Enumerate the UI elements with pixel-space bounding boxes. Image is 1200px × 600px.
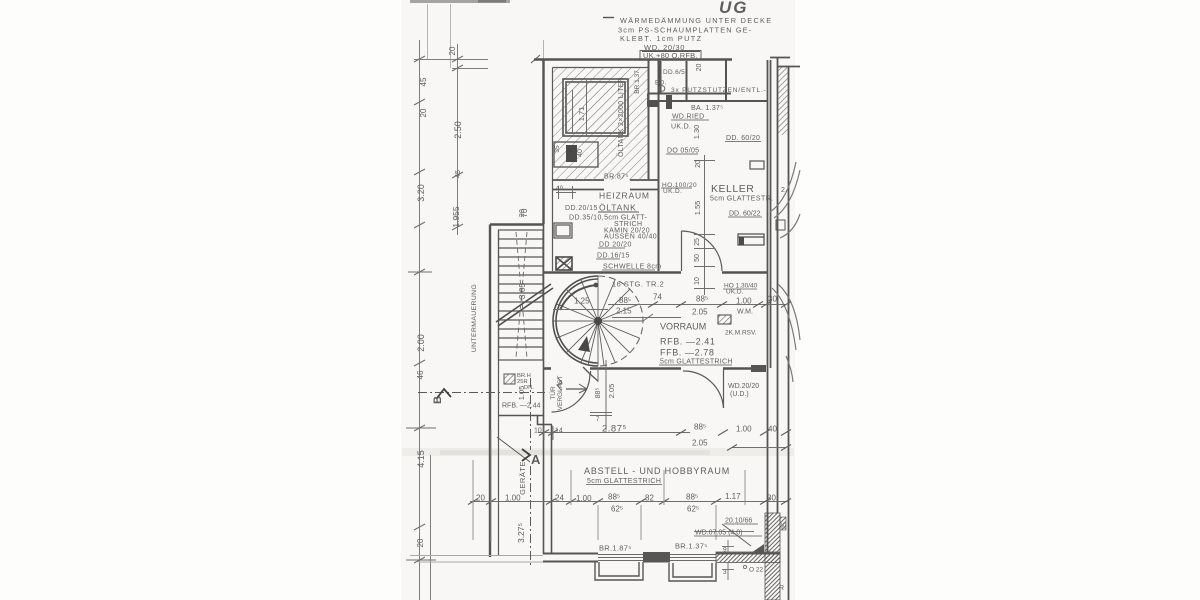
- svg-text:UK.+80 O.RFB.: UK.+80 O.RFB.: [643, 51, 698, 60]
- svg-text:A: A: [531, 452, 541, 467]
- svg-text:30: 30: [767, 494, 776, 503]
- svg-text:20: 20: [448, 46, 457, 55]
- bottom outer wall double with window openings: [543, 554, 780, 562]
- svg-text:40: 40: [556, 186, 564, 192]
- svg-text:WD.RIED: WD.RIED: [672, 114, 704, 121]
- svg-text:50: 50: [694, 254, 701, 262]
- oeltank room right wall double: [649, 60, 659, 272]
- spiral stair outer circle: [553, 276, 598, 366]
- keller shelf dark: [738, 234, 764, 245]
- svg-text:1.00: 1.00: [736, 297, 752, 306]
- small vertical dim marks right bottom: [722, 540, 747, 580]
- svg-text:HEIZRAUM: HEIZRAUM: [599, 191, 650, 201]
- svg-text:2K.M.RSV.: 2K.M.RSV.: [725, 330, 757, 337]
- svg-text:2.: 2.: [781, 187, 787, 194]
- small zigzag mark left of spiral room: [557, 378, 562, 390]
- right outer wall double: [768, 57, 801, 600]
- bottom dim labels: [476, 492, 776, 514]
- svg-text:30: 30: [768, 295, 777, 304]
- ticks on 2.87 dim line: [539, 430, 791, 451]
- svg-text:88⁵: 88⁵: [696, 295, 708, 304]
- svg-text:20: 20: [416, 538, 425, 547]
- svg-text:88⁵: 88⁵: [608, 493, 620, 502]
- svg-text:5cm GLATTESTR.: 5cm GLATTESTR.: [710, 196, 773, 203]
- section A diagonal jog: [497, 437, 530, 462]
- svg-text:45: 45: [419, 77, 428, 86]
- svg-text:UNTERMAUERUNG: UNTERMAUERUNG: [471, 284, 478, 352]
- faint bottom-left extension lines: [410, 556, 543, 563]
- svg-text:88⁵: 88⁵: [595, 388, 602, 399]
- oeltank room hatched interior: [553, 68, 648, 180]
- svg-text:BR.1.37: BR.1.37: [634, 70, 641, 94]
- stair break diagonal: [496, 284, 553, 326]
- tank interior hatch: [566, 82, 625, 133]
- svg-text:74: 74: [653, 293, 662, 302]
- corner tick top-left: [531, 55, 540, 63]
- svg-text:1.30: 1.30: [692, 125, 701, 140]
- svg-text:1.00: 1.00: [736, 425, 752, 434]
- leader diagonal to window label: [722, 524, 751, 546]
- svg-text:88⁵: 88⁵: [686, 493, 698, 502]
- svg-text:R: R: [779, 585, 784, 592]
- svg-text:2.05: 2.05: [692, 439, 708, 448]
- svg-text:DD.16/15: DD.16/15: [597, 253, 630, 260]
- svg-text:40: 40: [577, 149, 584, 157]
- heizraum text block: [519, 174, 697, 271]
- svg-text:20: 20: [476, 494, 485, 503]
- left small room labels: [517, 373, 534, 391]
- oeltank dim 1.71 line: [573, 79, 587, 136]
- svg-text:2.05: 2.05: [607, 384, 616, 399]
- dark sill box bottom left heizraum: [556, 257, 572, 270]
- svg-text:3: 3: [723, 569, 727, 576]
- svg-text:20: 20: [519, 209, 526, 218]
- svg-text:45: 45: [455, 170, 462, 178]
- straight stair enclosure: [499, 230, 544, 360]
- svg-text:VORRAUM: VORRAUM: [660, 322, 707, 332]
- svg-text:24: 24: [555, 494, 564, 503]
- svg-text:5cm GLATTESTRICH: 5cm GLATTESTRICH: [660, 359, 733, 366]
- small box right wall keller: [776, 220, 785, 230]
- svg-text:10: 10: [694, 277, 701, 285]
- section line B dash-dot: [418, 392, 545, 394]
- svg-text:88⁵: 88⁵: [619, 296, 631, 305]
- svg-text:16 STG. TR.2: 16 STG. TR.2: [612, 280, 664, 289]
- svg-text:BD.: BD.: [655, 80, 667, 87]
- curved arrow over treads: [560, 285, 596, 310]
- svg-text:82: 82: [645, 494, 654, 503]
- svg-text:WÄRMEDÄMMUNG UNTER DECKE: WÄRMEDÄMMUNG UNTER DECKE: [620, 16, 772, 25]
- dim ticks on left lines: [406, 56, 463, 563]
- stair walking line dashes: [516, 232, 527, 358]
- svg-text:20: 20: [696, 64, 703, 72]
- window well right: [669, 563, 716, 581]
- oeltank tank rectangle: [563, 79, 628, 136]
- svg-text:KLEBT. 1cm PUTZ: KLEBT. 1cm PUTZ: [620, 34, 702, 43]
- left vertical dimension line outer: [420, 40, 458, 600]
- svg-text:88⁵: 88⁵: [694, 423, 706, 432]
- svg-text:46: 46: [416, 370, 425, 379]
- svg-text:2.00: 2.00: [416, 334, 426, 352]
- ticks bottom dim row: [468, 499, 791, 505]
- svg-text:3x PUTZSTUTZEN/ENTL.-: 3x PUTZSTUTZEN/ENTL.-: [671, 87, 766, 94]
- small rooms top: BD circle: [659, 86, 665, 92]
- svg-text:ÖLTANK: ÖLTANK: [599, 203, 637, 213]
- svg-text:20.10/66: 20.10/66: [725, 518, 752, 525]
- right wall hatch top: [778, 67, 788, 135]
- svg-text:FFB. —2.78: FFB. —2.78: [660, 348, 715, 358]
- svg-text:3.05: 3.05: [517, 282, 527, 299]
- top small rooms labels: [655, 69, 787, 194]
- svg-text:35: 35: [554, 145, 561, 153]
- small dim ticks near 10/14 step: [544, 426, 553, 440]
- tuer verglast door arc: [552, 367, 599, 412]
- right edge partial arcs: [770, 162, 800, 382]
- annotation leader dash: [603, 17, 614, 19]
- svg-text:2.87⁵: 2.87⁵: [602, 424, 627, 435]
- svg-text:BR.1.37⁵: BR.1.37⁵: [675, 542, 708, 551]
- bottom main dim row y=501: [470, 501, 788, 503]
- svg-text:DD.6/5: DD.6/5: [663, 69, 685, 76]
- WD 20/30 label: [640, 43, 701, 60]
- section line A dash-dot: [530, 378, 532, 565]
- svg-text:DD. 60/22: DD. 60/22: [729, 211, 761, 218]
- dark wall segments bottom: [643, 552, 670, 563]
- svg-text:62⁵: 62⁵: [687, 505, 699, 514]
- rotated dims keller: [692, 64, 703, 285]
- keller / heizraum bottom wall with door opening: [543, 271, 767, 274]
- svg-text:UK.D.: UK.D.: [671, 124, 691, 131]
- svg-text:1.955: 1.955: [451, 206, 461, 228]
- svg-text:1.25: 1.25: [574, 297, 590, 306]
- svg-text:UK.D.: UK.D.: [726, 289, 744, 296]
- vorraum door arc: [683, 369, 724, 408]
- svg-text:1.55: 1.55: [693, 201, 702, 216]
- kamin small boxes left heizraum: [554, 223, 572, 238]
- dark lintel block right of vorraum door: [751, 365, 766, 372]
- svg-text:10: 10: [534, 428, 542, 435]
- scan smudge band: [402, 0, 794, 456]
- svg-text:62⁵: 62⁵: [611, 505, 623, 514]
- annotation text block: [618, 16, 772, 43]
- svg-text:WD.07.05 (4.0): WD.07.05 (4.0): [695, 530, 742, 537]
- svg-text:1.71: 1.71: [577, 107, 586, 122]
- svg-text:2.50: 2.50: [453, 121, 463, 139]
- dark right wall band in section: [765, 513, 780, 600]
- 40 dim heizraum wall: [556, 186, 576, 199]
- window well left: [595, 562, 643, 580]
- svg-text:BR.87⁵: BR.87⁵: [604, 174, 629, 181]
- svg-text:20: 20: [419, 108, 428, 117]
- inner face lines of left walls: [499, 68, 649, 556]
- svg-text:VERGLAST: VERGLAST: [557, 376, 564, 411]
- dim line 2.87 y=432: [538, 360, 786, 448]
- svg-text:1.17: 1.17: [725, 492, 741, 501]
- svg-text:DN.: DN.: [524, 385, 534, 391]
- top middle rooms walls: [648, 60, 767, 108]
- svg-text:RFB. —2.44: RFB. —2.44: [502, 403, 541, 410]
- svg-text:SCHWELLE 8cm: SCHWELLE 8cm: [603, 264, 661, 271]
- vorraum bottom wall with openings: [543, 367, 751, 370]
- svg-text:UK.D.: UK.D.: [663, 188, 682, 195]
- svg-text:1.00: 1.00: [576, 494, 592, 503]
- dark block small room divider: [666, 95, 672, 109]
- svg-text:2.15: 2.15: [616, 307, 632, 316]
- svg-text:AUSSEN 40/40: AUSSEN 40/40: [604, 234, 657, 241]
- washing machine box vorraum: [718, 315, 731, 324]
- left lower rooms walls (geraete): [499, 224, 553, 554]
- heizraum top wall with door opening BR87: [552, 180, 658, 190]
- spiral stair dashed right arc: [598, 276, 643, 366]
- svg-text:DO 05/05: DO 05/05: [667, 148, 699, 155]
- svg-text:40: 40: [768, 425, 777, 434]
- dim row vorraum top y=304: [553, 305, 786, 383]
- svg-text:O 22: O 22: [749, 567, 763, 574]
- svg-text:14: 14: [555, 428, 563, 435]
- svg-text:4.15: 4.15: [416, 450, 426, 468]
- spiral center post: [594, 317, 602, 325]
- svg-text:9: 9: [723, 547, 727, 554]
- dim extension verticals bottom: [473, 430, 745, 542]
- svg-text:ABSTELL - UND HOBBYRAUM: ABSTELL - UND HOBBYRAUM: [584, 466, 730, 476]
- svg-text:DD. 60/20: DD. 60/20: [726, 135, 760, 142]
- dim verticals inside keller: [694, 155, 715, 295]
- svg-text:RFB. —2.41: RFB. —2.41: [660, 337, 716, 347]
- svg-text:1.00: 1.00: [505, 494, 521, 503]
- section arrow A: [522, 449, 530, 461]
- spiral up arrow: [578, 336, 590, 352]
- svg-text:2.05: 2.05: [692, 308, 708, 317]
- svg-text:(U.D.): (U.D.): [730, 391, 749, 398]
- svg-text:ÖLTANK 2×2000 LITER: ÖLTANK 2×2000 LITER: [617, 77, 625, 157]
- svg-text:DD 20/20: DD 20/20: [599, 242, 632, 249]
- svg-text:3.20: 3.20: [416, 184, 426, 202]
- svg-text:25: 25: [694, 238, 701, 246]
- svg-text:BA. 1.37⁵: BA. 1.37⁵: [691, 105, 723, 112]
- spiral radial treads: [553, 276, 643, 366]
- pier hatched box left room: [504, 374, 515, 384]
- svg-text:WD.20/20: WD.20/20: [728, 383, 759, 390]
- svg-text:W.M.: W.M.: [737, 309, 753, 316]
- svg-text:5cm GLATTESTRICH: 5cm GLATTESTRICH: [587, 478, 661, 485]
- svg-text:25: 25: [781, 522, 788, 530]
- top horizontal dim line: [414, 60, 488, 69]
- svg-text:UG: UG: [719, 0, 749, 17]
- window thin lines in bottom wall: [598, 555, 716, 561]
- svg-text:KELLER: KELLER: [711, 183, 755, 195]
- faint top extension lines: [428, 4, 544, 68]
- shaft box right of keller top: [750, 161, 764, 169]
- section arrow B: [437, 389, 451, 398]
- svg-text:TÜR: TÜR: [549, 386, 557, 400]
- dark trapezoid near right window: [751, 544, 764, 553]
- chimney box upper: [554, 142, 598, 167]
- svg-text:B: B: [432, 396, 444, 404]
- svg-text:3.27⁵: 3.27⁵: [516, 523, 526, 543]
- svg-text:GERÄTE: GERÄTE: [518, 461, 527, 495]
- svg-text:20: 20: [695, 160, 702, 168]
- left dim labels rotated: [416, 46, 529, 547]
- svg-text:BR.1.87⁵: BR.1.87⁵: [599, 544, 632, 553]
- keller door arc: [682, 231, 723, 271]
- building outer wall: top-left block around OELTANK: [490, 60, 732, 558]
- svg-text:DD.20/15: DD.20/15: [565, 205, 598, 212]
